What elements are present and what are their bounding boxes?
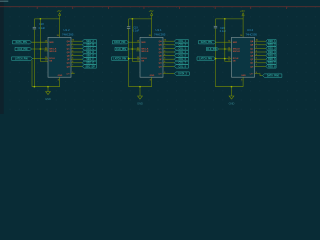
wire GND pin drop [242, 77, 244, 87]
global label SEG_F [82, 58, 96, 61]
wire QE output [71, 55, 82, 57]
global label DATA_PIN [13, 41, 32, 44]
ground symbol GND [231, 87, 233, 96]
svg-text:QA: QA [67, 40, 71, 43]
svg-text:13: 13 [137, 60, 139, 62]
wire VCC drop to pin 16 [59, 19, 61, 38]
global label CLK_PIN [207, 47, 219, 50]
svg-text:DATA_PIN: DATA_PIN [114, 41, 125, 44]
svg-text:RED_6: RED_6 [268, 59, 276, 61]
svg-text:U1.2: U1.2 [64, 28, 70, 32]
svg-text:16: 16 [57, 35, 59, 37]
wire DATA_PIN to pin [216, 41, 232, 43]
wire VCC drop to pin 16 [242, 19, 244, 38]
global label RED_1 [266, 40, 276, 43]
wire ground rail [32, 86, 60, 88]
sheet border tick [178, 6, 181, 9]
svg-text:QH': QH' [158, 74, 162, 76]
svg-text:SER: SER [141, 42, 146, 44]
svg-text:GND: GND [45, 97, 51, 101]
svg-text:RED_7: RED_7 [268, 63, 276, 65]
wire QH output [71, 65, 82, 67]
wire QC output [255, 47, 266, 49]
svg-text:QG: QG [250, 63, 254, 65]
global label RED_3 [266, 47, 276, 50]
wire QB output [255, 44, 266, 46]
global label DATA_PIN1 [263, 74, 282, 77]
svg-text:QA: QA [250, 40, 254, 43]
wire QG output [71, 62, 82, 64]
global label COL_6 [174, 58, 188, 61]
wire DATA_PIN to pin [129, 41, 141, 43]
wire QB output [71, 44, 82, 46]
wire QC output [163, 47, 174, 49]
svg-text:QH': QH' [66, 74, 70, 76]
svg-text:SEG_C: SEG_C [86, 48, 94, 50]
svg-text:COL_5: COL_5 [178, 55, 186, 57]
sheet border tick [249, 6, 252, 9]
wire LATCH_PIN to pin [216, 58, 232, 60]
wire VCC drop to pin 16 [151, 19, 153, 38]
junction label3/drop [215, 58, 217, 60]
svg-text:CLK_PIN: CLK_PIN [207, 49, 217, 51]
sheet border tick [36, 6, 39, 9]
global label SEG_G [82, 61, 96, 64]
svg-text:QD: QD [67, 52, 71, 54]
svg-text:0.1uF: 0.1uF [220, 30, 227, 33]
global label RED_8 [266, 65, 276, 68]
svg-text:0.1uF: 0.1uF [133, 30, 140, 33]
svg-text:RED_8: RED_8 [268, 66, 276, 68]
wire capacitor top lead [128, 19, 130, 27]
global label RED_4 [266, 50, 276, 53]
svg-text:16: 16 [240, 35, 242, 37]
svg-text:+5V: +5V [240, 9, 245, 13]
sheet border tick [285, 6, 288, 9]
svg-text:COL_7: COL_7 [178, 63, 186, 65]
wire capacitor bottom lead [128, 29, 130, 87]
wire QA output [163, 40, 174, 42]
svg-text:QD: QD [159, 52, 163, 54]
wire label drop to ground rail [31, 60, 33, 87]
wire LATCH_PIN to pin [130, 58, 141, 60]
svg-text:COL_6: COL_6 [178, 59, 186, 61]
svg-text:+5V: +5V [57, 9, 62, 13]
wire QD output [163, 51, 174, 53]
svg-text:QG: QG [67, 63, 71, 65]
wire +5V rail top [129, 18, 152, 20]
svg-text:QC: QC [250, 48, 254, 50]
svg-text:16: 16 [149, 35, 151, 37]
svg-text:QH: QH [159, 66, 163, 68]
svg-text:13: 13 [45, 60, 47, 62]
wire CLK_PIN to pin [129, 48, 141, 50]
global label SEG_C [82, 47, 96, 50]
global label SEG_E [82, 54, 96, 57]
wire GND pin drop [151, 77, 153, 87]
svg-text:COL_1: COL_1 [178, 41, 186, 43]
svg-text:COL_3: COL_3 [178, 48, 186, 50]
svg-text:QA: QA [159, 40, 163, 43]
wire QH' cascade [258, 74, 262, 76]
wire QH output [163, 65, 174, 67]
global label COL_2 [174, 43, 188, 46]
wire QH output [255, 65, 266, 67]
pin 9 stub QH' [255, 73, 259, 75]
junction gnd stem [47, 86, 49, 88]
pin 9 stub QH' [163, 73, 167, 75]
global label RED_7 [266, 61, 276, 64]
svg-text:QB: QB [250, 45, 254, 47]
capacitor C18 0.1uF [33, 26, 36, 28]
wire QA output [71, 40, 82, 42]
svg-text:SEG_E: SEG_E [86, 55, 94, 57]
svg-text:SRCLR: SRCLR [141, 51, 149, 53]
junction tie/latch wire [224, 58, 226, 60]
svg-text:DATA_2: DATA_2 [178, 72, 187, 75]
sheet border tick [214, 6, 217, 9]
wire +5V rail top [34, 18, 59, 20]
global label SEG_D [82, 50, 96, 53]
svg-text:U3.4: U3.4 [247, 28, 253, 32]
wire QD output [71, 51, 82, 53]
junction gnd stem [231, 86, 233, 88]
IC U1.1 74HC595 [140, 37, 163, 77]
left window edge strip [0, 0, 4, 114]
svg-text:U1.1: U1.1 [156, 28, 162, 32]
junction on +5V rail [132, 18, 134, 20]
wire QF output [71, 58, 82, 60]
svg-text:CLK_PIN: CLK_PIN [18, 49, 28, 51]
svg-text:DATA_PIN1: DATA_PIN1 [267, 74, 280, 77]
svg-text:8: 8 [58, 80, 59, 82]
capacitor C19 0.1uF [127, 26, 130, 28]
wire QG output [255, 62, 266, 64]
junction capacitor/ground rail [34, 86, 36, 88]
wire capacitor top lead [215, 19, 217, 26]
svg-text:COL_8: COL_8 [178, 66, 186, 68]
wire CLK_PIN to pin [219, 48, 232, 50]
global label LATCH_PIN [112, 57, 130, 60]
global label RED_2 [266, 43, 276, 46]
svg-text:SEG_DP: SEG_DP [85, 66, 95, 68]
svg-text:GND: GND [150, 75, 155, 77]
wire +5V rail top [216, 18, 244, 20]
wire QD output [255, 51, 266, 53]
wire ground rail [129, 86, 152, 88]
svg-text:DATA_PIN: DATA_PIN [16, 41, 27, 44]
global label COL_1 [174, 40, 188, 43]
wire QB output [163, 44, 174, 46]
top-left partial toolbar line [0, 0, 8, 3]
wire capacitor bottom lead [33, 29, 35, 86]
svg-text:SEG_F: SEG_F [86, 59, 94, 61]
global label LATCH_PIN [197, 57, 216, 60]
wire capacitor bottom lead [215, 28, 217, 86]
junction tie/clk wire [40, 48, 42, 50]
svg-text:QC: QC [159, 48, 163, 50]
svg-text:RED_3: RED_3 [268, 48, 276, 50]
wire LATCH_PIN to pin [33, 58, 49, 60]
svg-text:LATCH_PIN: LATCH_PIN [15, 57, 28, 60]
svg-text:SER: SER [49, 42, 54, 44]
svg-text:COL_4: COL_4 [178, 51, 186, 54]
junction gnd stem [139, 86, 141, 88]
IC U1.2 74HC595 [48, 37, 71, 77]
svg-text:SEG_G: SEG_G [86, 63, 94, 65]
global label CLK_PIN [15, 47, 32, 50]
svg-text:SEG_A: SEG_A [86, 40, 94, 43]
svg-text:QH': QH' [250, 74, 254, 76]
global label DATA_2 [174, 72, 189, 75]
global label COL_5 [174, 54, 188, 57]
global label COL_8 [174, 65, 188, 68]
global label RED_6 [266, 58, 276, 61]
wire QE output [163, 55, 174, 57]
ground symbol GND [139, 87, 141, 96]
svg-text:QB: QB [159, 45, 163, 47]
wire SRCLR tie to +5V [132, 19, 140, 62]
wire QF output [163, 58, 174, 60]
pin 9 stub QH' [71, 73, 75, 75]
svg-text:GND: GND [241, 75, 246, 77]
global label LATCH_PIN [12, 57, 33, 60]
global label SEG_A [82, 40, 96, 43]
IC U3.4 74HC595 [232, 37, 255, 77]
svg-text:QH: QH [250, 66, 254, 68]
svg-text:QG: QG [159, 63, 163, 65]
junction on +5V rail [224, 18, 226, 20]
global label SEG_B [82, 43, 96, 46]
svg-text:SEG_D: SEG_D [86, 52, 94, 54]
svg-text:SRCLR: SRCLR [49, 51, 57, 53]
wire ground rail [216, 86, 244, 88]
wire GND pin drop [59, 77, 61, 87]
global label COL_3 [174, 47, 188, 50]
wire CLK_PIN to pin [32, 48, 49, 50]
pin 10 stub SRCLR [136, 50, 140, 52]
wire QA output [255, 40, 266, 42]
junction label3/drop [128, 58, 130, 60]
svg-text:RED_5: RED_5 [268, 55, 276, 57]
wire QG output [163, 62, 174, 64]
svg-text:QD: QD [250, 52, 254, 54]
svg-text:13: 13 [228, 60, 230, 62]
sheet border tick [143, 6, 146, 9]
svg-text:GND: GND [58, 75, 63, 77]
wire QC output [71, 47, 82, 49]
junction tie/clk wire [224, 48, 226, 50]
wire DATA_PIN to pin [32, 41, 49, 43]
svg-text:LATCH_PIN: LATCH_PIN [113, 57, 126, 60]
svg-text:GND: GND [137, 101, 143, 105]
global label CLK_PIN [115, 47, 129, 50]
svg-text:+5V: +5V [149, 9, 154, 13]
svg-text:C18: C18 [39, 23, 44, 26]
svg-text:QC: QC [67, 48, 71, 50]
global label DATA_PIN [113, 41, 129, 44]
svg-text:RED_2: RED_2 [268, 45, 276, 47]
wire SRCLR tie to +5V [40, 19, 48, 62]
svg-text:GND: GND [229, 101, 235, 105]
svg-text:RED_4: RED_4 [268, 51, 276, 54]
wire QE output [255, 55, 266, 57]
svg-text:CLK_PIN: CLK_PIN [116, 49, 126, 51]
svg-text:74HC595: 74HC595 [154, 32, 166, 36]
global label RED_5 [266, 54, 276, 57]
sheet border tick [71, 6, 74, 9]
svg-text:8: 8 [241, 80, 242, 82]
svg-text:74HC595: 74HC595 [62, 32, 74, 36]
pin 10 stub SRCLR [44, 50, 48, 52]
svg-text:SEG_B: SEG_B [86, 45, 94, 47]
svg-text:QH: QH [67, 66, 71, 68]
svg-text:LATCH_PIN: LATCH_PIN [199, 57, 212, 60]
svg-text:QB: QB [67, 45, 71, 47]
wire SRCLR tie to +5V [225, 19, 232, 62]
wire capacitor top lead [33, 19, 35, 27]
svg-text:0.1uF: 0.1uF [39, 27, 46, 30]
svg-text:DATA_PIN: DATA_PIN [201, 41, 212, 44]
pin 10 stub SRCLR [228, 50, 232, 52]
svg-text:SRCLR: SRCLR [233, 51, 241, 53]
global label DATA_PIN [199, 41, 216, 44]
sheet border line [0, 5, 320, 8]
global label COL_4 [174, 50, 188, 53]
svg-text:8: 8 [150, 80, 151, 82]
sheet border tick [107, 6, 110, 9]
global label SEG_DP [82, 65, 96, 68]
svg-text:74HC595: 74HC595 [246, 32, 258, 36]
capacitor C20 0.1uF [214, 25, 217, 27]
svg-text:COL_2: COL_2 [178, 45, 186, 47]
junction on +5V rail [40, 18, 42, 20]
svg-text:RED_1: RED_1 [268, 41, 276, 43]
wire QF output [255, 58, 266, 60]
svg-text:SER: SER [233, 42, 238, 44]
ground symbol GND [47, 87, 49, 92]
global label COL_7 [174, 61, 188, 64]
wire QH' cascade [167, 73, 175, 75]
junction tie/clk wire [132, 48, 134, 50]
